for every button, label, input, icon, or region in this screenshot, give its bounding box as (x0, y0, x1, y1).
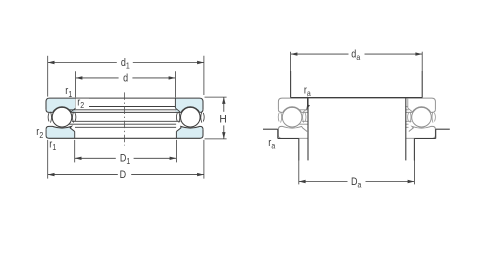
cage (410, 112, 411, 123)
housing seat left (278, 138, 299, 140)
bottom washer raceway lines (68, 123, 176, 125)
shaft body occluder (308, 99, 405, 170)
bottom washer outline (46, 129, 203, 138)
shaft shoulder face (291, 97, 423, 99)
dimension D (48, 174, 118, 176)
top washer outline (46, 98, 203, 109)
shaft body left side (307, 98, 309, 161)
bottom washer bore edges (74, 132, 76, 139)
top washer section fill right (175, 98, 203, 112)
dimension H (223, 97, 225, 112)
dimension d extension lines (75, 71, 77, 97)
housing wall left (277, 129, 279, 138)
cage (51, 112, 52, 123)
top washer bottom face and ball notches (46, 109, 53, 112)
ball (282, 107, 302, 127)
dimension D1 extension lines (74, 140, 76, 163)
cage (281, 112, 282, 123)
top washer bore edges (307, 98, 309, 108)
top washer bottom face and ball notches (278, 109, 282, 112)
top washer section fill left (46, 98, 76, 112)
dimension d1 (48, 62, 117, 64)
bottom washer section fill right (176, 126, 203, 138)
housing bore wall left (298, 139, 300, 161)
shaft shoulder left side (290, 71, 292, 98)
label ra top with leader (306, 97, 308, 107)
dimension Da extension lines (298, 161, 300, 185)
top washer bore edges (75, 98, 77, 108)
dimension d1 extension lines (47, 56, 49, 97)
housing wall right (435, 129, 437, 138)
bottom washer section fill left (46, 126, 75, 138)
housing surface right (436, 128, 450, 130)
housing bore wall right (413, 139, 415, 161)
ball (52, 107, 72, 127)
shaft shoulder right side (421, 71, 423, 98)
dimension da (291, 53, 349, 55)
label ra bottom (267, 139, 280, 149)
bottom washer rim line (72, 120, 180, 122)
housing surface left (263, 128, 278, 130)
bottom washer top face and ball seats (278, 126, 307, 131)
top washer raceway lines (308, 106, 407, 108)
dimension D extension lines (47, 140, 49, 179)
dimension d (76, 77, 119, 79)
bottom washer top face and ball seats (46, 126, 75, 131)
shaft body right side (405, 98, 407, 161)
label r1 top (64, 87, 76, 97)
svg-text:d: d (123, 72, 128, 84)
label r1 bottom (49, 140, 60, 150)
top washer raceway lines (76, 106, 175, 108)
bottom washer rim line (302, 120, 411, 122)
cage (179, 112, 180, 123)
housing seat right (414, 138, 435, 140)
dimension D1 (75, 157, 116, 159)
label r2 top (75, 99, 89, 109)
dimension Da (299, 181, 348, 183)
top washer outline (278, 98, 435, 109)
bottom washer raceway lines (298, 123, 408, 125)
centerline (124, 91, 126, 146)
ball (181, 107, 201, 127)
ball groove cutouts (52, 107, 73, 128)
svg-text:H: H (219, 113, 226, 125)
label r2 left (35, 128, 46, 138)
svg-text:D: D (120, 169, 127, 181)
dimension H extension lines (205, 96, 227, 98)
bottom washer outline (278, 129, 435, 138)
ball (412, 107, 432, 127)
dimension da extension lines (290, 52, 292, 71)
